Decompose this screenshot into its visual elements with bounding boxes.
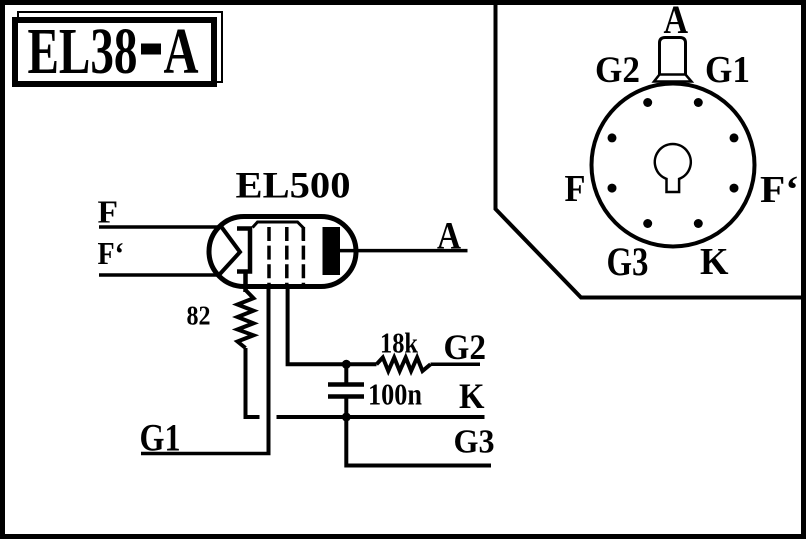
wire capacitor to K line — [344, 397, 348, 418]
grid G1 dashed — [267, 227, 271, 287]
svg-text:F‘: F‘ — [760, 169, 799, 211]
grid shield outline — [253, 222, 304, 240]
pin dot top-left — [643, 98, 652, 107]
capacitor C1 bottom plate — [328, 394, 364, 399]
pin dot bottom-left — [643, 219, 652, 228]
grid G3 dashed — [302, 227, 306, 287]
svg-text:18k: 18k — [380, 329, 418, 360]
resistor 82 — [238, 290, 254, 348]
pinout region boundary line — [496, 2, 806, 298]
svg-text:100n: 100n — [368, 378, 422, 412]
wire junction to G3 line — [346, 417, 491, 466]
anode plate — [323, 227, 341, 275]
wire K line — [277, 415, 485, 419]
svg-text:EL500: EL500 — [236, 166, 351, 207]
pin dot top-right — [694, 98, 703, 107]
svg-text:G1: G1 — [140, 417, 181, 460]
pin dot bottom-right — [694, 219, 703, 228]
pin dot lower-left — [608, 184, 617, 193]
socket center keyhole — [655, 144, 691, 192]
socket top key cap — [660, 38, 686, 76]
wire anode to A — [340, 249, 468, 253]
svg-text:F: F — [565, 168, 586, 210]
wire junction to capacitor — [344, 364, 348, 384]
wire junction to resistor 18k — [346, 362, 376, 366]
svg-text:G2: G2 — [595, 50, 640, 91]
grid G2 dashed — [285, 227, 289, 287]
svg-text:G1: G1 — [705, 49, 750, 91]
wire G1 lead — [267, 287, 271, 454]
svg-text:F: F — [98, 195, 119, 230]
node junction bottom — [342, 413, 351, 422]
svg-text:G2: G2 — [444, 327, 487, 367]
svg-text:G3: G3 — [607, 239, 649, 284]
node junction top — [342, 360, 351, 369]
pin dot upper-left — [608, 133, 617, 142]
svg-text:A: A — [437, 214, 461, 258]
wire resistor to G2 — [431, 363, 481, 367]
wire F — [99, 225, 222, 229]
svg-text:82: 82 — [187, 300, 211, 331]
wire F' — [99, 273, 219, 277]
svg-text:G3: G3 — [454, 424, 495, 461]
pin dot upper-right — [730, 133, 739, 142]
cathode bracket — [237, 229, 250, 272]
wire G1 horizontal — [141, 452, 271, 456]
capacitor C1 top plate — [328, 382, 364, 387]
svg-text:A: A — [164, 15, 199, 88]
svg-text:K: K — [459, 376, 485, 416]
resistor 18k — [377, 358, 431, 372]
socket key flare — [654, 75, 692, 82]
svg-text:K: K — [700, 241, 729, 283]
title box — [15, 20, 214, 84]
title box shadow — [18, 12, 222, 82]
tube envelope U1 — [209, 217, 356, 287]
cathode lead — [243, 272, 248, 293]
pin dot lower-right — [730, 184, 739, 193]
wire G2 lead — [288, 287, 347, 365]
title dash — [141, 44, 161, 55]
svg-text:A: A — [664, 0, 689, 43]
heater filament chevron — [219, 227, 240, 275]
svg-text:F‘: F‘ — [98, 236, 125, 271]
wire resistor to K line — [246, 348, 260, 417]
pinout socket circle — [592, 84, 755, 247]
svg-text:EL38: EL38 — [28, 15, 138, 88]
